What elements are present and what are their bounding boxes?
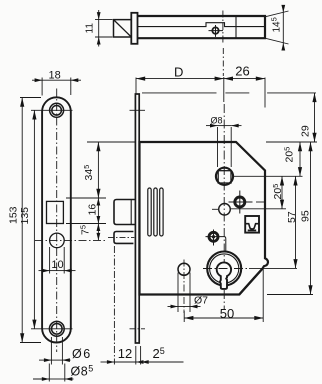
dim 7.5 — [97, 224, 99, 241]
svg-text:Ø7: Ø7 — [194, 295, 208, 307]
keyhole europrofile — [217, 262, 231, 288]
cylinder hole — [207, 252, 241, 286]
dim 14.5 — [265, 7, 289, 49]
dim 153 — [20, 98, 41, 343]
svg-text:57: 57 — [286, 211, 298, 223]
bolt hole — [50, 233, 65, 248]
small crossed circle — [206, 230, 226, 253]
bottom-right chamfer redraw — [239, 269, 262, 295]
svg-text:D: D — [174, 65, 183, 80]
svg-text:Ø6: Ø6 — [72, 347, 92, 361]
svg-text:12: 12 — [118, 346, 132, 361]
dim D — [136, 77, 224, 102]
crossed screw circle — [229, 191, 265, 214]
svg-text:11: 11 — [85, 23, 96, 34]
dim 135 — [31, 110, 41, 328]
dim 11 — [95, 10, 113, 47]
screw centerline tick top — [130, 109, 146, 111]
follower ext line right — [234, 175, 303, 177]
ext case top right — [266, 141, 317, 143]
dim dia8.5 — [33, 364, 74, 382]
screw centerline tick bottom — [130, 328, 146, 330]
dim 20.5 upper — [299, 142, 301, 176]
dim 34.5 / 16 / 7.5 extension lines — [66, 142, 135, 224]
svg-text:135: 135 — [19, 207, 31, 225]
dim dia7 — [168, 273, 201, 313]
faceplate strip (side) — [135, 94, 139, 343]
svg-text:29: 29 — [300, 125, 312, 137]
svg-text:10: 10 — [51, 259, 63, 271]
centerline (top view) — [222, 11, 224, 45]
cylinder horizontal centerline — [203, 268, 249, 270]
svg-text:Ø8: Ø8 — [211, 116, 223, 126]
dim 18 — [32, 78, 81, 96]
spring slot 1 — [148, 188, 151, 236]
dim 29 — [314, 93, 316, 142]
screw S1 (top view) — [209, 25, 224, 37]
dim 26 — [224, 78, 265, 108]
spring slot 2 — [154, 188, 157, 236]
latch bolt (top view) — [114, 20, 132, 37]
lower hole — [219, 204, 231, 216]
dim 57 — [295, 176, 297, 268]
lock case body (top view) — [138, 16, 266, 38]
deadbolt centerline — [108, 236, 134, 238]
deadbolt (side) — [114, 232, 133, 244]
ext cylinder center right — [249, 267, 297, 269]
dim 50 — [184, 268, 263, 323]
svg-text:26: 26 — [235, 64, 249, 79]
dim dia8 — [206, 126, 242, 167]
vertical centerline main — [223, 104, 225, 310]
spring slot 3 — [160, 188, 163, 236]
screw hole bottom — [41, 321, 73, 336]
lower hole ext line right — [231, 208, 286, 210]
bolt hole centerline — [35, 239, 106, 241]
ext case bottom right — [267, 294, 313, 296]
faceplate (top view) — [131, 13, 137, 44]
dia7 centerline — [183, 260, 185, 314]
ext line 29 top — [142, 92, 316, 94]
dim 95 — [310, 142, 312, 295]
fixing hole dia7 — [178, 263, 190, 275]
svg-text:153: 153 — [8, 206, 20, 224]
dim 16 — [97, 198, 99, 224]
latch bolt (side) — [114, 200, 136, 225]
dim 12 / 2.5 — [101, 246, 184, 365]
dim dia6 — [39, 337, 71, 365]
svg-text:95: 95 — [300, 210, 312, 222]
svg-text:50: 50 — [220, 306, 234, 321]
dim 10 — [39, 247, 76, 274]
logo stamp square — [245, 216, 259, 233]
faceplate plate outline — [42, 97, 71, 342]
svg-text:16: 16 — [87, 204, 99, 216]
screw hole top — [41, 103, 73, 117]
dim 34.5 — [97, 142, 99, 198]
lock case outline — [140, 142, 268, 295]
latch opening — [47, 201, 64, 223]
follower hole dia8 — [216, 168, 233, 185]
dim 20.5 lower — [281, 176, 283, 209]
svg-text:18: 18 — [48, 70, 60, 82]
plate vertical centerline — [56, 89, 58, 353]
